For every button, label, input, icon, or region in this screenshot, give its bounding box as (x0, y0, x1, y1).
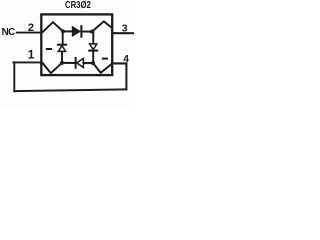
node B junction dot (90, 30, 94, 34)
wire pin 1 (left lead into box) (13, 61, 41, 63)
node C junction dot (60, 61, 64, 65)
svg-text:2: 2 (28, 22, 34, 34)
node A junction dot (61, 29, 65, 33)
pin number 2 (28, 22, 34, 34)
wire pin 3 (box to right edge of image) (112, 32, 134, 34)
wire diode D4 cathode down to node D (92, 51, 94, 64)
wire node A to diode D1 anode (63, 30, 72, 32)
wire pin4 right vertical drop (125, 63, 127, 89)
node D junction dot (91, 61, 95, 65)
component box CR302 (bridge rectifier outline) (41, 14, 112, 75)
wire diode D1 cathode to node B (82, 31, 92, 33)
svg-text:1: 1 (28, 47, 35, 61)
wire pin 4 (box to outer right lead) (112, 62, 126, 64)
pin number 4 (123, 54, 129, 65)
wire dip right (node D under dip to right box edge) (93, 63, 112, 73)
wire diode D3 anode to node D (83, 62, 93, 64)
wire node C to diode D3 cathode bar (62, 62, 75, 64)
wire node B down to diode D4 anode (92, 32, 94, 44)
wire bottom return rail (connects pin 1 to pin 4) (14, 89, 126, 91)
pin number 3 (122, 24, 128, 35)
diode D2 left vertical (hollow, pointing up, cathode bar on top) (58, 45, 66, 52)
diode D3 bottom horizontal (hollow, pointing left, bar on left) (76, 58, 84, 68)
svg-text:3: 3 (122, 24, 128, 35)
wire peak right (node B over hump to right box edge) (92, 21, 112, 31)
wire peak left (pin2 entry over hump to node A) (42, 22, 63, 32)
wire dip left (pin1 entry under dip to node C) (42, 63, 61, 73)
diode D1 top horizontal (filled, pointing right) (72, 26, 81, 36)
wire diode D2 anode down to node C (61, 51, 63, 62)
wire pin1 left vertical drop (13, 62, 15, 91)
polarity minus sign left (47, 48, 51, 50)
polarity minus sign right (103, 58, 107, 60)
pin label NC (2, 27, 16, 38)
wire node A down to diode D2 cathode (62, 31, 64, 44)
reference designator label CR302 (65, 0, 91, 11)
diode D4 right vertical (hollow, pointing down, cathode bar below) (89, 44, 97, 51)
svg-text:NC: NC (2, 27, 16, 38)
wire pin 2 (NC to box) (17, 32, 42, 34)
pin number 1 (28, 47, 35, 61)
svg-text:CR3Ø2: CR3Ø2 (65, 0, 91, 11)
